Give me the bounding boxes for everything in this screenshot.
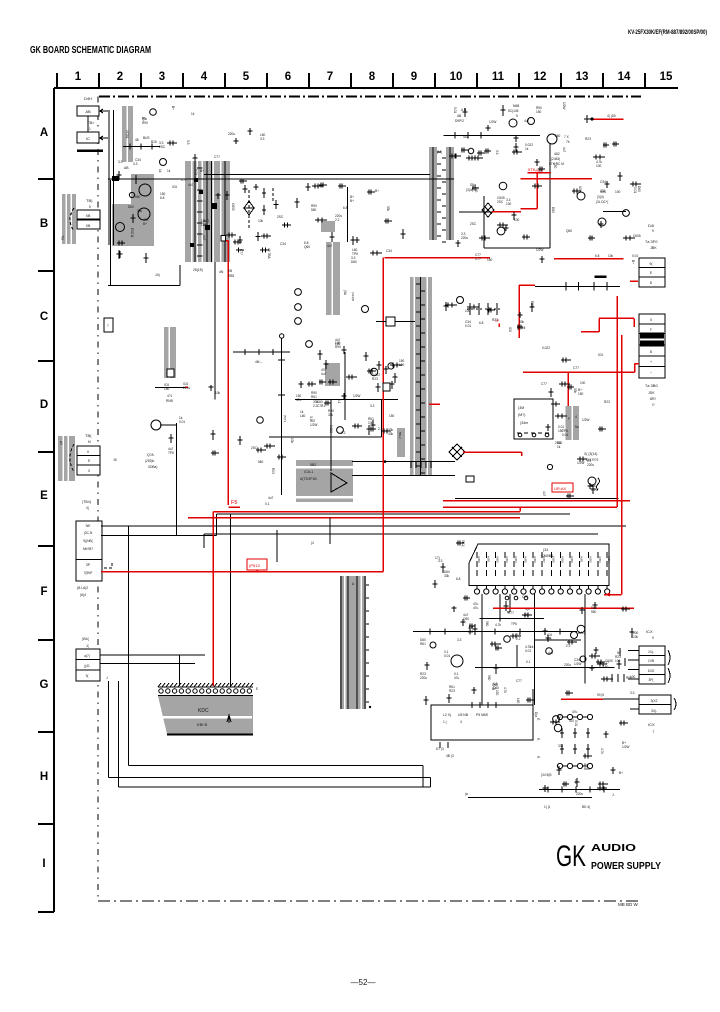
svg-text:220u: 220u: [564, 663, 571, 667]
svg-text:R90: R90: [142, 121, 148, 125]
svg-text:(TB4(: (TB4(: [82, 500, 92, 504]
svg-text:3.3: 3.3: [118, 160, 123, 164]
svg-text:L60: L60: [468, 630, 474, 634]
svg-text:Q60: Q60: [463, 617, 469, 621]
svg-text:B+: B+: [350, 199, 354, 203]
column tick 3: [182, 73, 184, 88]
red vertical left E-G: [212, 512, 214, 686]
svg-text:33k: 33k: [573, 388, 577, 394]
red stub F5: [228, 506, 240, 508]
svg-text:—52—: —52—: [351, 978, 376, 987]
red wire from bridge: [463, 451, 522, 453]
shaded bar pair IC101: [429, 147, 437, 240]
red bus E2: [213, 511, 520, 513]
wire bus E black 3: [204, 533, 598, 535]
svg-text:BD 4(: BD 4(: [582, 805, 591, 809]
svg-text:12: 12: [534, 71, 547, 83]
transistor QC2: [457, 297, 464, 304]
svg-text:6.8: 6.8: [479, 321, 484, 325]
connector box right 2pin row G: [639, 695, 671, 714]
link wire between AB and IC boxes: [87, 116, 89, 132]
svg-text:Q60: Q60: [566, 229, 572, 233]
KDC bottom edge: [167, 734, 253, 736]
wire bus E black 2: [101, 525, 626, 527]
connector box row D 3pin: [77, 446, 100, 475]
svg-text:3.3: 3.3: [495, 150, 499, 155]
svg-text:0.01: 0.01: [632, 254, 638, 258]
svg-text:462: 462: [554, 152, 560, 156]
cap row left of 4pin: [611, 674, 613, 682]
svg-text:47u: 47u: [296, 398, 302, 402]
column tick 6: [308, 73, 310, 88]
svg-text:A(B1: A(B1: [579, 556, 583, 563]
shaded bar pair F-row: [566, 406, 572, 440]
svg-text:3P: 3P: [86, 563, 91, 567]
svg-text:1DO: 1DO: [648, 669, 655, 673]
svg-text:1/2W: 1/2W: [591, 488, 598, 492]
bracket mark right of 2pin box: [674, 698, 676, 710]
wire vertical into opamp: [330, 400, 332, 471]
svg-text:D60: D60: [637, 186, 641, 192]
wire transistor D link: [160, 424, 177, 426]
svg-text:150: 150: [389, 414, 395, 418]
svg-text:A(B0: A(B0: [477, 556, 481, 563]
svg-text:C605: C605: [231, 203, 235, 211]
row tick 9: [38, 911, 54, 913]
red tick on IC301 bar: [429, 403, 440, 405]
svg-text:ICX: ICX: [646, 629, 653, 634]
svg-text:(3A: (3A: [343, 290, 347, 296]
shaded block Q601 area: [131, 174, 154, 204]
wire bottom bus H2: [109, 777, 431, 779]
svg-text:FA-: FA-: [61, 235, 65, 240]
svg-text:IC6: IC6: [598, 353, 603, 357]
shaded patch C-left: [321, 221, 335, 232]
ticks row A axis: [129, 144, 131, 150]
svg-text:L60: L60: [516, 698, 520, 704]
extra transistor circles row C left: [295, 289, 302, 296]
svg-text:÷: ÷: [650, 371, 652, 375]
svg-text:4u7: 4u7: [569, 719, 575, 723]
svg-text:TP6: TP6: [352, 252, 358, 256]
CN501 pin drop 4: [584, 594, 586, 684]
svg-text:L60: L60: [335, 342, 341, 346]
stub below CN501: [509, 594, 511, 612]
wire double vertical pair row A: [108, 110, 110, 245]
CN501 pin circles: [476, 585, 478, 589]
svg-text:L60: L60: [201, 223, 207, 227]
row tick 1: [38, 178, 54, 180]
svg-text:JSK: JSK: [648, 391, 655, 395]
svg-text:C605: C605: [633, 234, 641, 238]
red bus row D right: [523, 371, 635, 373]
component group row B mid2: [236, 236, 244, 253]
wire G box stub 2: [100, 663, 195, 665]
svg-text:9: 9: [652, 636, 654, 640]
connector box IC row A: [77, 132, 99, 143]
svg-text:47u: 47u: [473, 606, 479, 610]
svg-text:2CB1: 2CB1: [125, 130, 129, 139]
red vertical right D-F: [621, 335, 623, 595]
vertical dashed element far right row B: [272, 188, 274, 201]
svg-text:6.8: 6.8: [595, 254, 600, 258]
svg-text:F5: F5: [231, 500, 237, 506]
column tick 12: [560, 73, 562, 88]
svg-text:IC: IC: [86, 136, 90, 141]
svg-text:R61: R61: [584, 767, 590, 771]
svg-text:4(: 4(: [86, 506, 90, 510]
red arrowhead at CN: [604, 593, 610, 597]
transistor Q602: [138, 208, 150, 220]
wire bus row B main: [108, 178, 454, 180]
wire row E right box: [466, 476, 474, 482]
component cluster STK area rows B: [599, 221, 604, 228]
IC box row D right: [514, 399, 553, 439]
svg-text:A(TD3P1B: A(TD3P1B: [300, 477, 317, 481]
svg-text:150: 150: [495, 690, 499, 696]
svg-text:33k: 33k: [444, 574, 450, 578]
component group right of IC block row B: [256, 200, 292, 253]
row tick 3: [38, 360, 54, 362]
svg-text:6R!: 6R!: [650, 397, 656, 401]
svg-text:2SC: 2SC: [470, 222, 477, 226]
transistor Q603: [116, 223, 125, 232]
shaded bar C-left IC201: [326, 242, 340, 315]
svg-text:5: 5: [243, 71, 250, 83]
svg-text:560: 560: [487, 675, 491, 681]
svg-text:ICX: ICX: [648, 722, 655, 727]
svg-text:100: 100: [399, 363, 405, 367]
svg-text:L60: L60: [300, 414, 306, 418]
junction blob row B left: [112, 176, 119, 181]
svg-text:2SC: 2SC: [555, 441, 562, 445]
svg-text:IC6: IC6: [600, 189, 605, 193]
svg-text:(4: (4: [311, 541, 314, 545]
svg-text:5BJ(: 5BJ(: [461, 540, 465, 547]
svg-text:9: 9: [411, 71, 417, 83]
module box row H: [431, 705, 533, 740]
column tick 1: [98, 73, 100, 88]
wire bus E black 1: [216, 513, 570, 515]
svg-text:6: 6: [285, 71, 291, 83]
svg-text:A(B6: A(B6: [533, 556, 537, 563]
svg-text:47u: 47u: [572, 710, 578, 714]
svg-text:N68: N68: [513, 104, 519, 108]
wire row G axis: [413, 631, 577, 633]
svg-text:1/2W: 1/2W: [622, 745, 629, 749]
connector box AB row A: [77, 106, 99, 116]
svg-text:100: 100: [615, 190, 621, 194]
wire row H right axis: [539, 789, 620, 791]
wire corner H1: [422, 766, 424, 787]
svg-text:560: 560: [311, 208, 317, 212]
svg-text:a(7): a(7): [84, 654, 90, 658]
svg-text:TP6: TP6: [168, 451, 174, 455]
svg-text:4.7k: 4.7k: [495, 623, 501, 627]
svg-text:A(B7: A(B7: [542, 556, 546, 563]
row tick 8: [38, 823, 54, 825]
wire vertical to KDC 1: [178, 655, 180, 686]
svg-text:D4H: D4H: [84, 96, 92, 101]
arrow into IC: [100, 136, 108, 140]
svg-text:B+: B+: [200, 169, 204, 173]
svg-text:100: 100: [596, 164, 602, 168]
svg-text:R23: R23: [604, 400, 610, 404]
svg-text:1/2W: 1/2W: [310, 423, 317, 427]
svg-text:100: 100: [630, 675, 636, 679]
red drop to gray pair: [567, 372, 569, 406]
svg-text:E: E: [40, 490, 48, 502]
red bus E1: [443, 506, 617, 508]
shaded bar C row 4C1: [164, 327, 176, 378]
wire vertical from IC area to row C: [214, 262, 216, 400]
svg-text:4M –: 4M –: [255, 360, 262, 364]
red vertical row C right: [518, 285, 520, 338]
component box at red start: [221, 236, 226, 242]
stub 2pin row2: [630, 708, 639, 710]
wire horizontal row C-D left: [295, 399, 398, 401]
svg-text:(P513: (P513: [249, 563, 260, 568]
svg-text:TB): TB): [86, 198, 93, 203]
svg-text:10k: 10k: [608, 254, 614, 258]
wire G box stub 1: [100, 654, 205, 656]
svg-text:(6(4: (6(4: [80, 593, 86, 597]
svg-text:13: 13: [576, 71, 589, 83]
wire bottom bus H1: [129, 765, 424, 767]
svg-text:10: 10: [450, 71, 463, 83]
svg-text:5: 5: [650, 318, 652, 322]
svg-text:4: 4: [575, 415, 577, 419]
svg-text:48: 48: [135, 138, 139, 142]
red bus E0: [443, 500, 630, 502]
wire row B elbow vertical: [179, 265, 181, 285]
svg-text:D60: D60: [551, 207, 555, 213]
red label URPAX: [552, 483, 573, 492]
svg-text:2.2: 2.2: [378, 427, 383, 431]
svg-text:0.01: 0.01: [194, 169, 198, 175]
svg-text:5()NB(: 5()NB(: [83, 539, 93, 543]
svg-text:C77: C77: [181, 178, 187, 182]
red drop STK: [536, 173, 538, 209]
ticks on H axis: [547, 787, 549, 793]
column tick 0: [56, 73, 58, 88]
column tick 10: [476, 73, 478, 88]
svg-text:7a 3F0: 7a 3F0: [645, 239, 658, 244]
svg-text:Q60: Q60: [304, 245, 310, 249]
component cluster center rows C-D: [318, 350, 323, 360]
svg-text:1/2W: 1/2W: [353, 394, 360, 398]
svg-text:J.: J.: [612, 793, 615, 797]
red bus row B right: [520, 178, 592, 180]
svg-text:IC6: IC6: [578, 186, 582, 191]
svg-text:220u: 220u: [587, 463, 594, 467]
svg-text:4u7: 4u7: [542, 491, 546, 497]
svg-text:C77: C77: [573, 366, 579, 370]
svg-text:0.1: 0.1: [337, 399, 341, 404]
wire vertical x549 rows A-B: [549, 143, 551, 248]
red dash row C right: [630, 280, 638, 282]
svg-text:KDC: KDC: [198, 708, 209, 714]
svg-text:i?: i?: [652, 403, 655, 407]
svg-text:RB5: RB5: [228, 274, 234, 278]
svg-text:R61: R61: [311, 395, 317, 399]
svg-text:I: I: [42, 858, 45, 870]
svg-text:100: 100: [580, 381, 586, 385]
svg-text:Mb?B7: Mb?B7: [83, 547, 93, 551]
svg-text:F: F: [40, 586, 47, 598]
svg-text:4N: 4N: [219, 270, 224, 274]
wire row C right bus: [535, 285, 620, 287]
svg-text:0.01: 0.01: [633, 187, 637, 193]
svg-text:2.2: 2.2: [335, 218, 340, 222]
row tick 7: [38, 731, 54, 733]
shaded tall bar IC301 7a36: [410, 277, 432, 475]
comps left of 4pin box: [619, 648, 621, 656]
svg-text:(: (: [653, 729, 655, 733]
wire diac axis: [459, 211, 492, 213]
svg-text:AB: AB: [124, 166, 129, 170]
svg-text:XB: XB: [86, 224, 91, 228]
svg-text:5: 5: [89, 205, 91, 209]
wire row G upper link: [480, 618, 544, 620]
shaded connector trio CN-B left: [62, 194, 76, 244]
svg-text:C77: C77: [557, 715, 563, 719]
svg-text:(334(B: (334(B: [351, 292, 355, 301]
wire module corner: [532, 689, 534, 705]
row tick 6: [38, 639, 54, 641]
column tick 9: [434, 73, 436, 88]
svg-text:560: 560: [555, 134, 561, 138]
svg-text:4u7: 4u7: [548, 651, 554, 655]
svg-text:J: J: [106, 676, 108, 680]
wire bus E black 4: [101, 535, 216, 537]
svg-text:0.01: 0.01: [525, 649, 531, 653]
svg-text:100: 100: [615, 659, 621, 663]
svg-text:(B4(: (B4(: [82, 637, 90, 641]
svg-text:3.3: 3.3: [438, 559, 443, 563]
ticks on G axis: [429, 629, 431, 635]
svg-text:C77: C77: [239, 249, 243, 255]
svg-text:IC6: IC6: [172, 185, 177, 189]
svg-text:Q?A: Q?A: [147, 453, 155, 457]
connector box right 4pin row G: [639, 646, 665, 684]
svg-text:100: 100: [506, 202, 512, 206]
shaded connector trio CN-D left: [58, 436, 75, 481]
component cluster row C center: [401, 229, 406, 239]
svg-text:((41: ((41: [84, 664, 90, 668]
component cluster right of diac rows B: [497, 227, 505, 235]
svg-text:2.2: 2.2: [313, 404, 318, 408]
column tick 8: [392, 73, 394, 88]
transistor Q351: [151, 420, 161, 430]
svg-text:1k: 1k: [158, 169, 162, 173]
cap symbols on row C bus: [565, 282, 567, 291]
svg-text:(34 5(B: (34 5(B: [541, 773, 551, 777]
svg-text:1k: 1k: [167, 169, 171, 173]
svg-text:G: G: [40, 679, 49, 691]
junction dot opamp out: [384, 460, 387, 463]
svg-text:10k: 10k: [574, 779, 578, 785]
svg-text:AUDIO: AUDIO: [591, 842, 636, 854]
svg-text:IC6: IC6: [508, 327, 512, 332]
svg-text:A(B1: A(B1: [486, 556, 490, 563]
svg-text:25(15): 25(15): [193, 268, 203, 272]
wire vertical x128 F-H: [128, 526, 130, 766]
svg-text:3.3: 3.3: [630, 691, 635, 695]
transistor Q151: [547, 134, 557, 144]
board outline chain top: [99, 95, 641, 97]
svg-text:1k: 1k: [530, 645, 534, 649]
svg-text:560: 560: [485, 621, 489, 627]
svg-text:C: C: [40, 311, 48, 323]
shaded bar G8b left of IC301: [397, 428, 405, 457]
capacitor row C right: [467, 303, 473, 315]
svg-text:220u: 220u: [576, 792, 583, 796]
ticks on module top edge: [471, 702, 473, 708]
svg-text:P5 M6S: P5 M6S: [476, 713, 489, 717]
svg-text:3(X2: 3(X2: [651, 699, 658, 703]
svg-text:D9P/2: D9P/2: [455, 119, 464, 123]
wire bottom bus H3: [119, 786, 431, 788]
circle pins IC box D: [518, 433, 522, 437]
wire bus row B upper: [204, 174, 430, 176]
svg-text:3.3: 3.3: [260, 137, 265, 141]
svg-text:10k: 10k: [215, 391, 221, 395]
svg-text:150: 150: [553, 163, 557, 169]
svg-text:(5(74: (5(74: [283, 415, 287, 422]
svg-text:33k: 33k: [386, 206, 390, 212]
svg-text:(3L DC*(: (3L DC*(: [596, 200, 609, 204]
svg-text:D60: D60: [128, 205, 134, 209]
svg-text:0.022: 0.022: [542, 346, 550, 350]
svg-text:XDBa): XDBa): [148, 465, 157, 469]
svg-text:150: 150: [164, 387, 170, 391]
svg-text:X( (3(14): X( (3(14): [584, 452, 597, 456]
svg-text:7: 7: [327, 71, 333, 83]
board outline chain bottom: [98, 900, 640, 902]
shaded tall bar G-row CN602: [340, 576, 366, 709]
svg-text:C77: C77: [541, 382, 547, 386]
svg-text:D: D: [40, 399, 48, 411]
red stub STK: [520, 208, 537, 210]
svg-text:100: 100: [514, 218, 520, 222]
harness bracket row D: [70, 444, 74, 472]
stubs into right 4pin box: [628, 650, 639, 652]
svg-text:14: 14: [618, 71, 631, 83]
svg-text:0.01: 0.01: [444, 654, 450, 658]
svg-text:0.01: 0.01: [562, 433, 568, 437]
svg-text:XB: XB: [86, 214, 91, 218]
svg-text:MB BD W: MB BD W: [618, 902, 639, 907]
svg-text:R23: R23: [492, 318, 498, 322]
svg-text:4u7: 4u7: [327, 244, 333, 248]
svg-text:C34: C34: [386, 249, 392, 253]
svg-text:0.1: 0.1: [526, 660, 531, 664]
wire row C lower: [376, 321, 415, 323]
svg-text:3.3: 3.3: [457, 638, 462, 642]
wire row E right long: [455, 498, 619, 500]
svg-text:A: A: [40, 127, 48, 139]
svg-text:R23: R23: [271, 468, 275, 474]
transistor Q154: [598, 218, 606, 226]
connector box XB1: [77, 210, 100, 219]
shaded IC block area B3-B4 stripes: [185, 161, 230, 262]
svg-text:220u: 220u: [183, 386, 190, 390]
red underline STK: [528, 172, 551, 174]
svg-text:(5-: (5-: [537, 717, 541, 721]
connector box XB2: [77, 220, 100, 229]
svg-text:220u: 220u: [420, 676, 427, 680]
